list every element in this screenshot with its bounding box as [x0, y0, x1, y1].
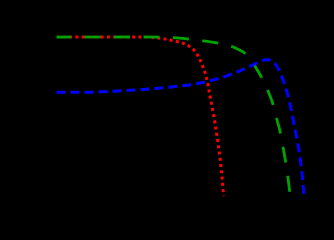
green long-dashed curve: [57, 37, 291, 197]
red dotted curve: [57, 37, 224, 196]
blue dashed curve: [57, 60, 304, 195]
